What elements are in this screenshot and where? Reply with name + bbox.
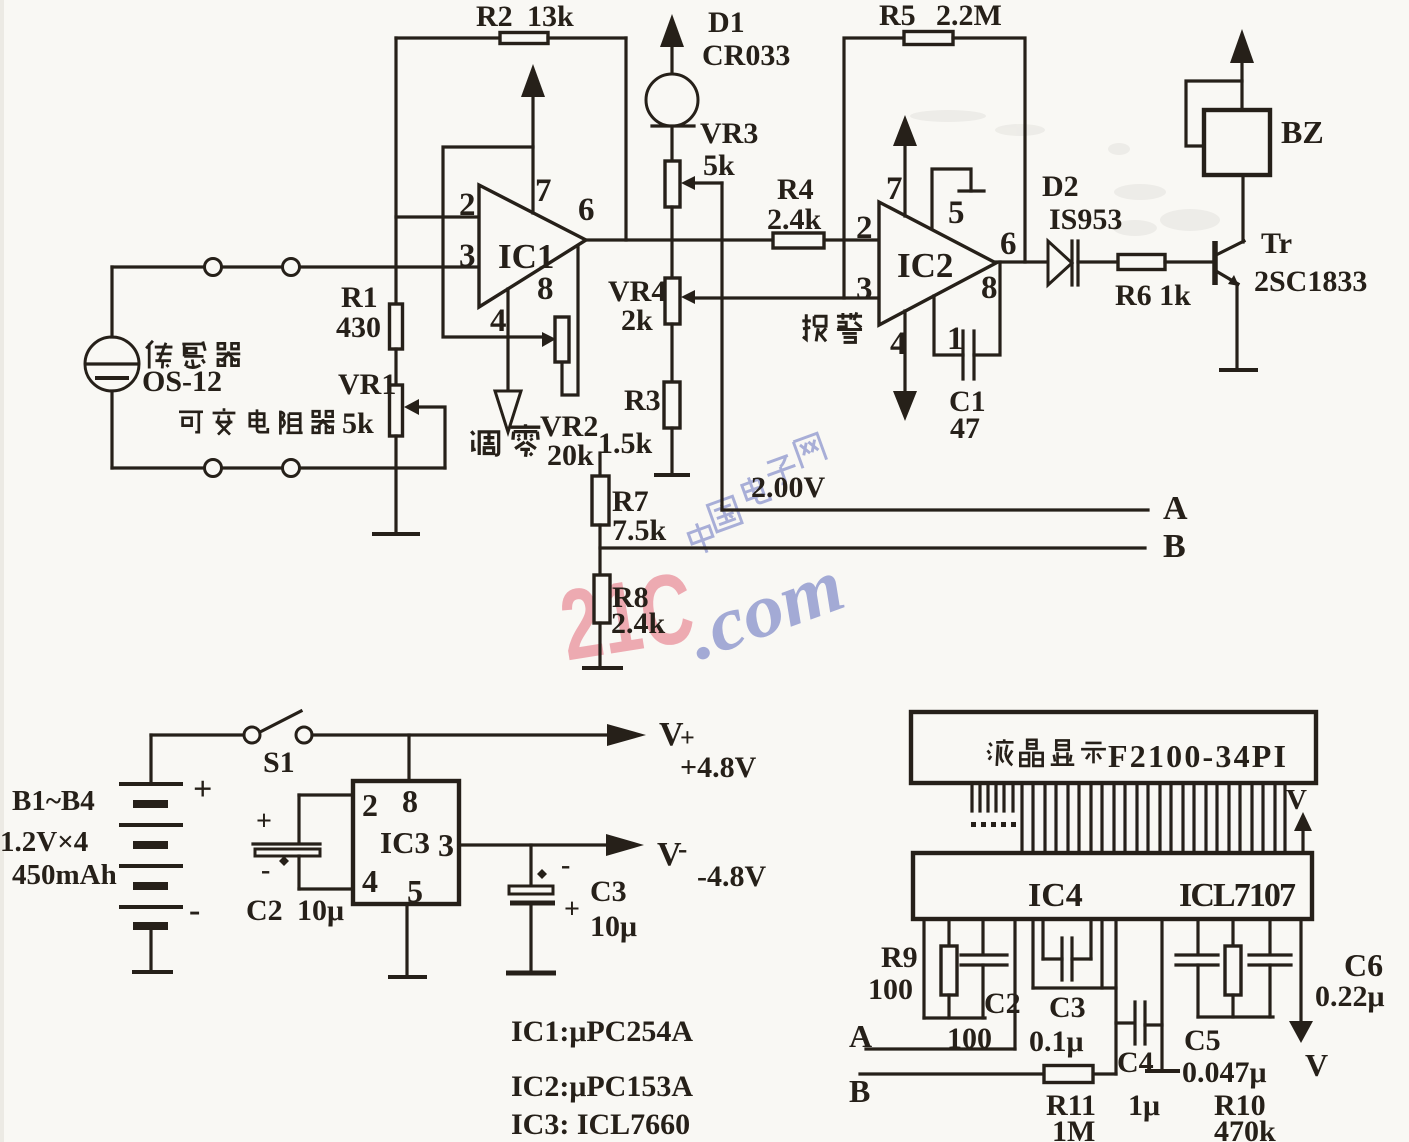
wire R1 to VR1 <box>394 349 397 385</box>
node B line <box>600 546 1145 549</box>
label 报警 <box>802 312 862 342</box>
svg-text:VR1: VR1 <box>338 368 396 401</box>
svg-text:-4.8V: -4.8V <box>697 860 766 893</box>
svg-text:B1~B4: B1~B4 <box>12 785 95 817</box>
svg-text:Tr: Tr <box>1261 227 1292 260</box>
svg-text:0.22μ: 0.22μ <box>1315 980 1385 1013</box>
ground battery <box>134 970 171 974</box>
wire VR4 to R3 <box>670 324 673 382</box>
capacitor C2 10u <box>299 793 353 796</box>
svg-text:3: 3 <box>856 271 873 307</box>
svg-text:+: + <box>256 806 272 837</box>
svg-text:8: 8 <box>981 270 998 306</box>
svg-text:IC2: IC2 <box>897 246 953 285</box>
label 可变电阻器 <box>179 408 334 434</box>
op-amp IC2 <box>879 202 996 325</box>
wire VR1 to ground <box>394 436 397 533</box>
svg-text:OS-12: OS-12 <box>142 365 222 398</box>
terminal circles top <box>205 259 222 276</box>
svg-text:4: 4 <box>362 863 378 899</box>
svg-text:R4: R4 <box>777 173 814 206</box>
wire R3 to ground <box>670 428 673 474</box>
capacitor C2 (100) <box>981 921 984 953</box>
svg-text:V: V <box>1305 1047 1328 1083</box>
svg-text:BZ: BZ <box>1281 114 1324 150</box>
dotted continuation <box>971 822 1016 827</box>
svg-text:2.4k: 2.4k <box>767 203 822 236</box>
svg-text:470k: 470k <box>1214 1115 1276 1142</box>
svg-text:5: 5 <box>948 195 965 231</box>
resistor R3 <box>664 382 680 428</box>
wire offset loop around IC1 <box>443 147 543 337</box>
svg-text:C5: C5 <box>1184 1024 1221 1057</box>
LCD display F2100-34PI <box>911 712 1316 783</box>
resistor R7 <box>598 453 601 476</box>
transistor Tr 2SC1833 <box>1212 241 1218 285</box>
svg-text:7: 7 <box>535 173 552 209</box>
wire VR3 wiper to reference vertical <box>694 181 722 184</box>
wire IC1 output line to IC2 pin2 <box>586 238 879 241</box>
svg-text:C4: C4 <box>1117 1046 1154 1079</box>
ground C3 <box>506 971 556 976</box>
capacitor C4 1u <box>1116 1021 1133 1024</box>
svg-text:0.1μ: 0.1μ <box>1029 1025 1084 1058</box>
svg-text:7: 7 <box>886 171 903 207</box>
resistor R5 feedback <box>844 38 904 298</box>
potentiometer VR3 <box>670 127 673 161</box>
svg-text:2k: 2k <box>621 304 653 337</box>
potentiometer VR4 <box>665 278 680 324</box>
wire VR1 wiper to bottom row <box>418 407 445 468</box>
wire IC2 output <box>996 260 1048 263</box>
pin 8 vertical <box>562 246 578 395</box>
potentiometer VR2 <box>555 317 569 362</box>
svg-text:2: 2 <box>459 187 476 223</box>
svg-text:-: - <box>561 850 570 881</box>
svg-text:5k: 5k <box>703 149 735 182</box>
svg-text:A: A <box>1163 490 1188 527</box>
IC3 ICL7660 <box>353 781 459 904</box>
wire feedback vertical from R2 down to R1 <box>394 38 397 304</box>
wire sensor top lead <box>110 267 113 337</box>
resistor R2 <box>396 36 500 39</box>
svg-text:5k: 5k <box>342 407 374 440</box>
pin 7 vertical and V+ arrow <box>903 143 906 216</box>
node A line 2.00V <box>722 508 1148 511</box>
svg-text:3: 3 <box>438 827 454 863</box>
wire IC3 pin8 <box>407 735 410 781</box>
resistor R10 <box>1231 921 1234 946</box>
svg-text:IC1:μPC254A: IC1:μPC254A <box>511 1015 693 1048</box>
diode lamp D1 CR033 <box>660 14 684 47</box>
svg-text:+: + <box>680 723 695 752</box>
wire sensor bottom lead <box>110 391 113 468</box>
resistor R1 <box>390 304 403 349</box>
IC4 ICL7107 <box>913 853 1312 919</box>
svg-text:13k: 13k <box>527 0 574 33</box>
wire VR3 to VR4 <box>670 207 673 278</box>
resistor R6 <box>1118 255 1165 270</box>
svg-text:R1: R1 <box>341 281 378 314</box>
svg-text:R5: R5 <box>879 0 916 32</box>
battery B1-B4 <box>121 735 181 971</box>
svg-text:20k: 20k <box>547 439 594 472</box>
pin 7 vertical and V+ arrow <box>531 95 534 213</box>
svg-text:1M: 1M <box>1052 1115 1095 1142</box>
resistor R9 <box>947 921 950 946</box>
arrow stub on IC4 top right <box>1301 828 1304 853</box>
svg-text:430: 430 <box>336 311 381 344</box>
ground R3 <box>656 473 688 477</box>
svg-text:C3: C3 <box>590 875 627 908</box>
wire bottom row <box>112 466 445 469</box>
svg-text:1μ: 1μ <box>1128 1089 1160 1122</box>
svg-text:S1: S1 <box>263 746 295 779</box>
svg-text:47: 47 <box>950 412 980 445</box>
svg-text:450mAh: 450mAh <box>12 859 117 891</box>
svg-text:+4.8V: +4.8V <box>680 751 757 784</box>
svg-text:C2: C2 <box>246 894 283 927</box>
ground Tr emitter <box>1221 368 1256 372</box>
terminal circles bottom <box>205 460 222 477</box>
wire R8 to ground <box>598 623 601 667</box>
label 传感器 <box>146 341 240 369</box>
ground VR1 <box>374 532 418 536</box>
middle group capacitor C3 (0.1u) <box>1031 921 1034 988</box>
svg-text:2: 2 <box>362 787 378 823</box>
svg-text:-: - <box>189 892 200 929</box>
switch S1 <box>151 733 244 736</box>
svg-text:IC3: ICL7660: IC3: ICL7660 <box>511 1108 690 1141</box>
svg-text:2: 2 <box>856 210 873 246</box>
wire D2 to R6 <box>1078 260 1118 263</box>
svg-text:2.00V: 2.00V <box>751 471 826 504</box>
wire S1 to V+ <box>312 733 610 736</box>
svg-text:C6: C6 <box>1344 947 1383 983</box>
pin 5 stub <box>932 169 971 228</box>
svg-text:10μ: 10μ <box>297 894 344 927</box>
ground R8 <box>584 666 621 670</box>
svg-text:A: A <box>849 1018 872 1054</box>
svg-text:5: 5 <box>407 873 423 909</box>
wire BZ to V+ arrow <box>1240 62 1243 110</box>
op-amp IC1 <box>479 185 586 307</box>
capacitor C3 10u <box>529 845 532 885</box>
svg-text:-: - <box>261 855 270 886</box>
svg-text:B: B <box>1163 528 1186 565</box>
svg-text:3: 3 <box>459 238 476 274</box>
svg-text:D2: D2 <box>1042 170 1079 203</box>
svg-text:0.047μ: 0.047μ <box>1182 1056 1267 1089</box>
right group: C5 / R10 / cap <box>1196 921 1199 953</box>
svg-text:V: V <box>1286 784 1307 816</box>
wire reference vertical down to A line <box>720 183 723 510</box>
svg-text:6: 6 <box>1000 226 1017 262</box>
svg-text:-: - <box>678 834 687 865</box>
svg-text:R9: R9 <box>881 941 918 974</box>
node A line bottom <box>866 1047 1015 1050</box>
svg-text:100: 100 <box>868 973 913 1006</box>
svg-text:IC2:μPC153A: IC2:μPC153A <box>511 1070 693 1103</box>
wire IC1 pin2 <box>396 215 479 218</box>
pin 4 vertical and V- arrow <box>903 311 906 393</box>
svg-text:IS953: IS953 <box>1049 203 1122 236</box>
node B line bottom with R11 <box>860 1072 1116 1075</box>
svg-text:10μ: 10μ <box>590 910 637 943</box>
scan smudges <box>910 110 1220 236</box>
LCD stub pins <box>972 783 1013 811</box>
resistor R8 <box>594 575 610 623</box>
diode D2 IS953 <box>1048 241 1072 285</box>
rail under right group <box>1198 1015 1273 1018</box>
svg-text:4: 4 <box>890 326 907 362</box>
wire IC4 pin down to node A <box>1013 921 1016 1049</box>
sensor OS-12 <box>85 337 139 391</box>
svg-text:4: 4 <box>490 303 507 339</box>
potentiometer VR1 <box>390 385 403 436</box>
capacitor right of R10 <box>1268 921 1271 953</box>
svg-text:VR3: VR3 <box>700 117 758 150</box>
svg-text:R2: R2 <box>476 0 513 33</box>
svg-text:2.2M: 2.2M <box>936 0 1002 32</box>
svg-text:8: 8 <box>402 783 418 819</box>
svg-text:6: 6 <box>578 192 595 228</box>
svg-text:8: 8 <box>537 271 554 307</box>
watermark 中国电子网 <box>686 433 827 556</box>
svg-text:ICL7107: ICL7107 <box>1179 877 1296 914</box>
svg-text:2.4k: 2.4k <box>611 607 666 640</box>
svg-text:+: + <box>564 894 580 925</box>
hollow down arrow (offset null) <box>495 391 521 432</box>
wire pin to rail <box>922 921 925 1018</box>
buzzer BZ <box>1204 110 1270 175</box>
svg-text:1.5k: 1.5k <box>598 427 653 460</box>
wire IC3 pin3 to V- <box>459 843 607 846</box>
ground IC3 <box>390 975 425 979</box>
svg-text:R3: R3 <box>624 384 661 417</box>
resistor R4 <box>773 233 824 248</box>
svg-text:R6 1k: R6 1k <box>1115 279 1191 312</box>
svg-text:+: + <box>193 771 212 808</box>
LCD to IC4 bus pins <box>1022 783 1285 853</box>
wire R2 right vertical to output node <box>624 38 627 240</box>
svg-text:CR033: CR033 <box>702 39 790 72</box>
svg-text:B: B <box>849 1073 870 1109</box>
svg-text:7.5k: 7.5k <box>612 514 667 547</box>
svg-text:2SC1833: 2SC1833 <box>1254 265 1367 298</box>
wire IC4 pin down to node B <box>1114 921 1117 1074</box>
svg-text:IC3: IC3 <box>380 825 430 860</box>
svg-text:1: 1 <box>947 321 964 357</box>
wire R7 to R8 / B junction <box>598 525 601 575</box>
wire R6 to base <box>1165 260 1213 263</box>
svg-text:1.2V×4: 1.2V×4 <box>0 826 88 858</box>
rail under R9/C2 <box>924 1016 985 1019</box>
svg-text:F2100-34PI: F2100-34PI <box>1108 738 1286 774</box>
svg-text:C3: C3 <box>1049 991 1086 1024</box>
pin 4 vertical <box>506 289 509 391</box>
svg-text:IC4: IC4 <box>1028 877 1083 914</box>
label 调零 <box>471 424 540 457</box>
capacitor C1 <box>934 296 963 355</box>
svg-text:D1: D1 <box>708 6 745 39</box>
capacitor C6 0.22u line with down arrow <box>1299 921 1302 1022</box>
wire VR4 wiper to IC2 pin3 <box>694 296 879 299</box>
wire IC3 pin5 to ground <box>405 904 408 976</box>
wire top row to IC1 pin3 <box>112 265 479 268</box>
